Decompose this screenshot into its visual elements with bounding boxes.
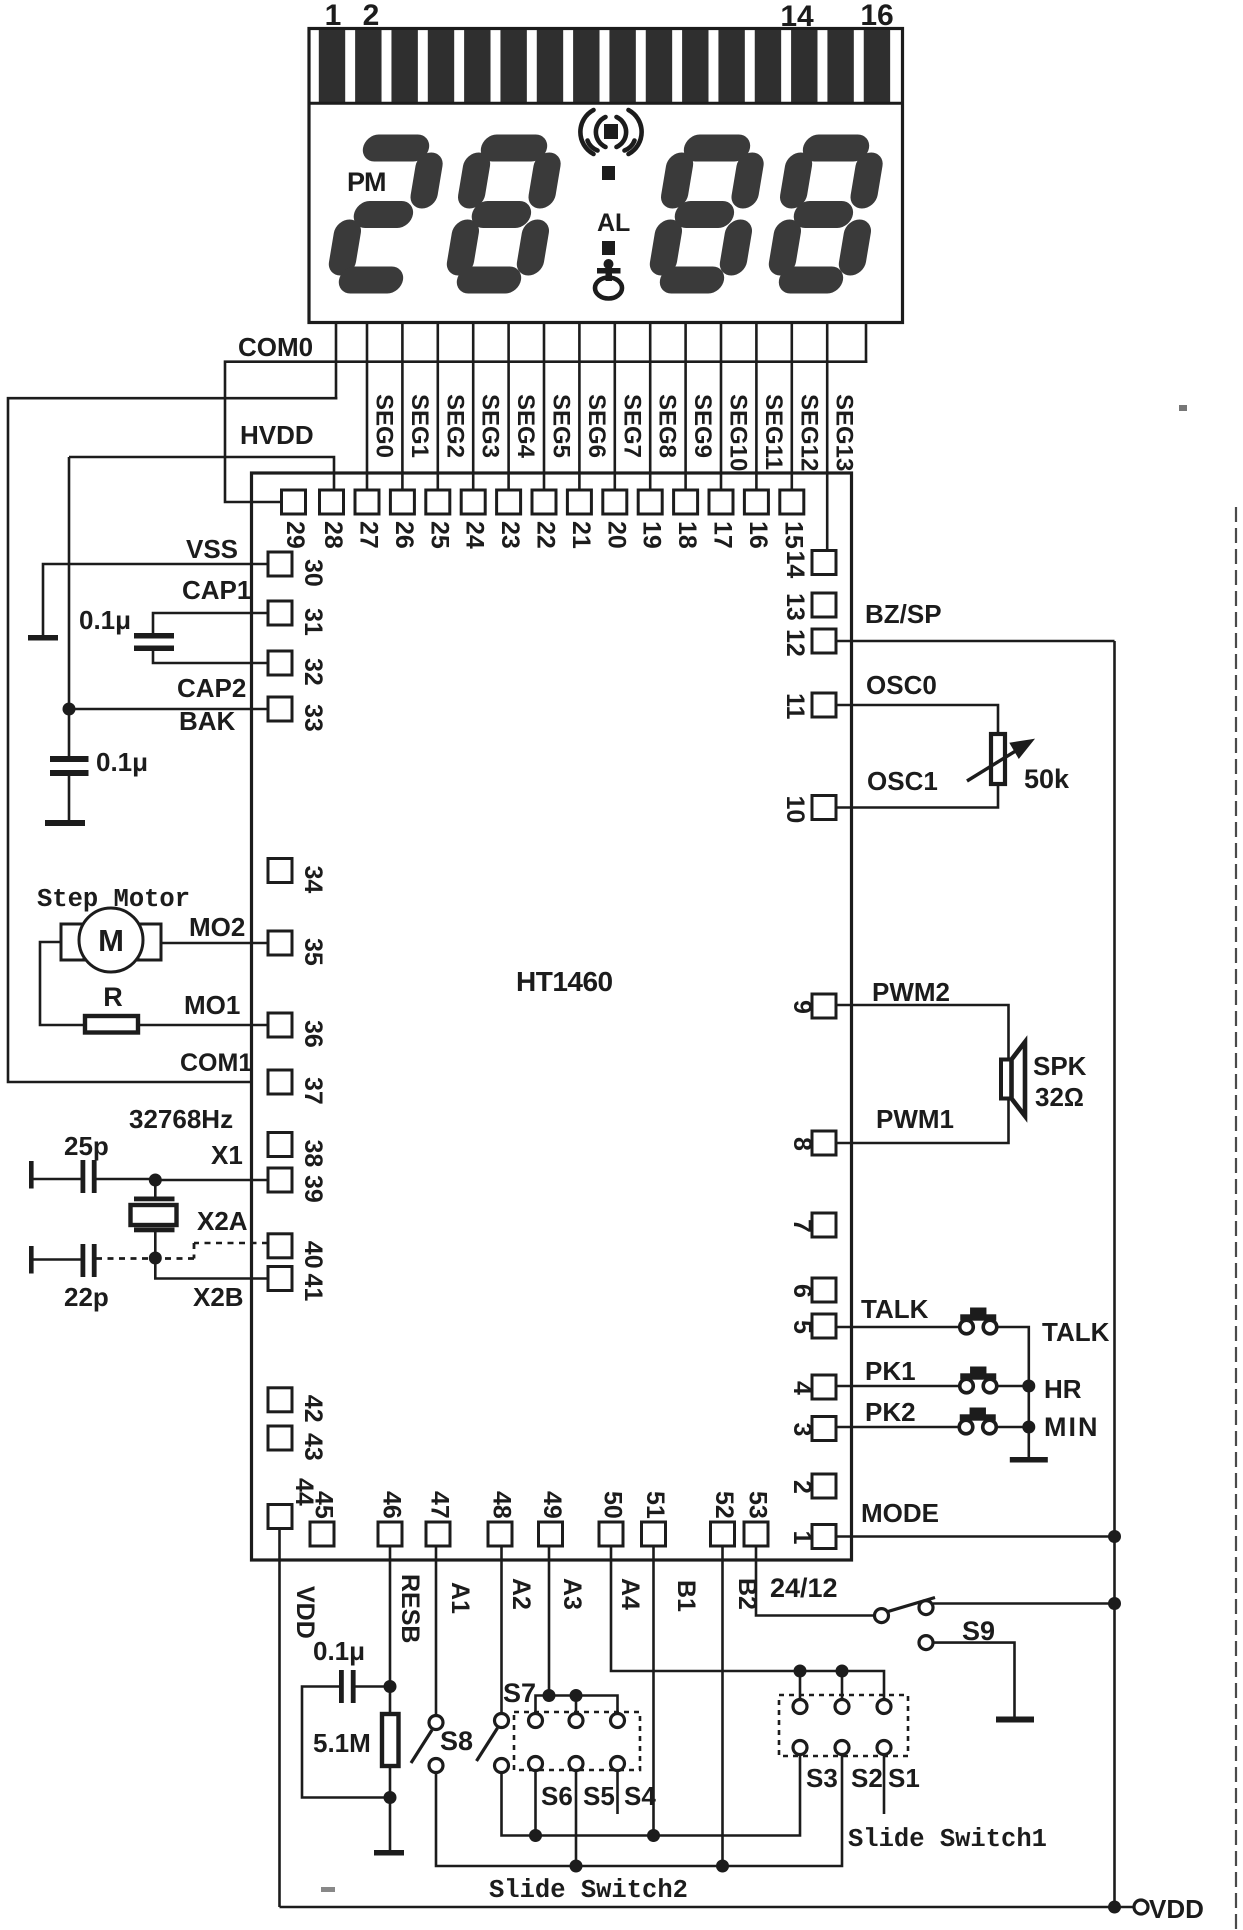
switch S7 bottom contact: [495, 1759, 509, 1773]
wire A4 pin50 to switch1 bus: [611, 1546, 884, 1700]
capacitor 22p plate left: [81, 1244, 86, 1277]
svg-text:0.1μ: 0.1μ: [313, 1636, 365, 1666]
LCD digit 2 (shows 8): [457, 148, 550, 280]
potentiometer 50k arrow: [967, 741, 1031, 781]
alarm-key indicator: [595, 259, 622, 299]
svg-text:32Ω: 32Ω: [1035, 1082, 1084, 1112]
svg-text:CAP2: CAP2: [177, 673, 246, 703]
svg-text:4: 4: [788, 1381, 816, 1395]
svg-text:45: 45: [310, 1491, 338, 1519]
switch S3 top contact: [793, 1700, 807, 1714]
svg-text:PWM1: PWM1: [876, 1104, 954, 1134]
colon dot lower: [602, 241, 615, 255]
ground VSS: [28, 635, 58, 641]
svg-text:23: 23: [496, 521, 524, 549]
svg-text:S3: S3: [806, 1763, 838, 1793]
svg-text:3: 3: [788, 1423, 816, 1437]
svg-text:40: 40: [299, 1241, 327, 1269]
switch S8 lever: [411, 1730, 432, 1763]
svg-text:X1: X1: [211, 1140, 243, 1170]
svg-text:PWM2: PWM2: [872, 977, 950, 1007]
svg-text:52: 52: [710, 1491, 738, 1519]
wire S8 to bottom bus: [436, 1773, 800, 1867]
switch S9 common contact: [919, 1601, 933, 1615]
svg-text:B1: B1: [672, 1580, 700, 1612]
potentiometer 50k body: [991, 734, 1005, 784]
LCD display module outline: [309, 29, 903, 323]
svg-text:CAP1: CAP1: [182, 575, 251, 605]
push button TALK: [960, 1308, 997, 1334]
svg-text:Slide Switch2: Slide Switch2: [489, 1876, 688, 1905]
svg-text:SEG6: SEG6: [583, 394, 610, 458]
switch S9 contact B: [919, 1636, 933, 1650]
svg-text:17: 17: [709, 521, 737, 549]
capacitor C2 0.1u plate bottom: [50, 770, 89, 776]
svg-text:25p: 25p: [64, 1131, 109, 1161]
wire A1 pin47 down: [435, 1546, 438, 1716]
svg-text:20: 20: [602, 521, 630, 549]
svg-text:RESB: RESB: [396, 1574, 424, 1643]
svg-text:PM: PM: [347, 167, 386, 197]
svg-text:39: 39: [299, 1175, 327, 1203]
wire B2 pin52 down: [721, 1546, 724, 1866]
svg-text:BZ/SP: BZ/SP: [865, 599, 942, 629]
svg-text:27: 27: [355, 521, 383, 549]
svg-text:SEG0: SEG0: [371, 394, 398, 458]
wire S5 bottom to low bus: [575, 1770, 578, 1866]
svg-text:10: 10: [781, 796, 809, 824]
svg-text:A4: A4: [616, 1578, 644, 1610]
slide switch2 outline dashed: [514, 1712, 640, 1770]
wire RESB node to ground: [389, 1766, 392, 1851]
wire button rail to ground: [1028, 1386, 1031, 1458]
svg-text:31: 31: [299, 608, 327, 636]
SEG0-SEG13 labels: [371, 394, 858, 471]
svg-text:33: 33: [299, 704, 327, 732]
svg-text:37: 37: [299, 1077, 327, 1105]
speaker SPK frame: [1001, 1060, 1012, 1099]
IC HT1460 body: [252, 473, 852, 1560]
svg-text:COM0: COM0: [238, 332, 313, 362]
svg-text:34: 34: [299, 866, 327, 894]
svg-text:X2A: X2A: [197, 1206, 248, 1236]
crystal Y1 top plate: [134, 1197, 175, 1202]
svg-text:36: 36: [299, 1020, 327, 1048]
junction X2B node: [149, 1252, 162, 1265]
svg-text:B2: B2: [733, 1578, 761, 1610]
svg-text:HR: HR: [1044, 1374, 1082, 1404]
svg-text:SPK: SPK: [1033, 1051, 1087, 1081]
svg-text:SEG1: SEG1: [406, 394, 433, 458]
ground buttons: [1010, 1457, 1048, 1463]
svg-text:5: 5: [788, 1320, 816, 1334]
switch S9 contact A: [875, 1609, 889, 1623]
wire right rail vertical: [1113, 641, 1116, 1907]
svg-text:MO1: MO1: [184, 990, 240, 1020]
svg-text:SEG10: SEG10: [725, 394, 752, 471]
wire crystal to X2B node: [154, 1232, 157, 1258]
svg-text:16: 16: [860, 0, 893, 32]
wire S9 contact B to ground: [933, 1643, 1015, 1717]
svg-text:HT1460: HT1460: [516, 966, 613, 997]
wire S4 bottom stub: [616, 1770, 619, 1814]
svg-text:5.1M: 5.1M: [313, 1728, 371, 1758]
wire MIN button to rail: [996, 1426, 1029, 1429]
wire BZ/SP pin12: [836, 640, 1115, 643]
wire PWM2 pin9: [836, 1005, 1009, 1059]
switch S2 bottom contact: [835, 1741, 849, 1755]
svg-text:21: 21: [567, 521, 595, 549]
svg-text:22: 22: [532, 521, 560, 549]
wire C3 right to RESB: [355, 1685, 390, 1688]
svg-text:2: 2: [363, 0, 380, 32]
crystal Y1 bottom plate: [134, 1228, 175, 1233]
svg-text:6: 6: [788, 1284, 816, 1298]
svg-text:0.1μ: 0.1μ: [79, 605, 131, 635]
capacitor C3 plate right: [351, 1670, 356, 1703]
svg-text:9: 9: [788, 1000, 816, 1014]
wire X2B pin41: [155, 1258, 268, 1279]
junction S3 top node: [794, 1665, 807, 1678]
VDD terminal circle: [1134, 1900, 1148, 1914]
page edge line: [1235, 507, 1237, 1930]
svg-text:29: 29: [281, 521, 309, 549]
svg-text:S7: S7: [503, 1678, 536, 1708]
svg-text:50k: 50k: [1024, 764, 1070, 794]
svg-text:VDD: VDD: [291, 1586, 319, 1639]
switch S7 top contact: [495, 1714, 509, 1728]
capacitor C3 plate left: [339, 1670, 344, 1703]
mid bus to S3: [758, 1754, 800, 1836]
svg-text:1: 1: [788, 1531, 816, 1545]
wire MO2 pin35: [161, 942, 268, 945]
IC bottom pins 45-53 (pads and numbers): [310, 1491, 772, 1546]
capacitor 22p plate right: [92, 1244, 97, 1277]
capacitor C1 0.1u plate top: [134, 633, 174, 639]
svg-text:S6: S6: [541, 1781, 573, 1811]
junction BAK node: [63, 703, 76, 716]
wire X1 pin39: [155, 1179, 268, 1182]
svg-text:SEG7: SEG7: [618, 394, 645, 458]
stripe band separator line: [310, 102, 901, 105]
wire C3 left loop: [302, 1687, 384, 1798]
step motor body M: [79, 908, 143, 972]
svg-text:43: 43: [299, 1433, 327, 1461]
svg-text:Slide Switch1: Slide Switch1: [848, 1825, 1047, 1854]
svg-text:PK2: PK2: [865, 1397, 916, 1427]
svg-text:HVDD: HVDD: [240, 420, 314, 450]
resistor 5.1M body: [382, 1714, 399, 1766]
svg-text:2: 2: [788, 1480, 816, 1494]
wire COM1 stub from LCD: [335, 321, 338, 400]
slide switch1 outline dashed: [779, 1695, 908, 1756]
wire 25p left lead: [31, 1178, 81, 1181]
crystal Y1 body: [131, 1205, 177, 1225]
wire PK1 pin4: [836, 1385, 959, 1388]
wire OSC1 pin10: [836, 784, 998, 808]
junction RESB-C3 node: [384, 1680, 397, 1693]
wire CAP1 cap to pin32: [153, 651, 268, 663]
svg-text:25: 25: [425, 521, 453, 549]
junction S2 top node: [836, 1665, 849, 1678]
wire S1 bottom stub: [883, 1754, 886, 1814]
svg-text:SEG9: SEG9: [689, 394, 716, 458]
LCD connector stripe band (16 electrode bars): [319, 30, 890, 103]
svg-text:SEG2: SEG2: [441, 394, 468, 458]
LCD digit 4 (shows 8): [779, 148, 872, 280]
HVDD wire: [69, 457, 334, 492]
step motor terminal right: [138, 924, 161, 960]
wire S7 to mid bus: [502, 1773, 759, 1836]
junction MIN node: [1022, 1421, 1035, 1434]
wire VDD pin44 down: [278, 1530, 281, 1907]
svg-text:11: 11: [781, 693, 809, 720]
svg-text:S4: S4: [624, 1781, 656, 1811]
switch S6 top contact: [529, 1714, 543, 1728]
svg-text:14: 14: [780, 0, 814, 33]
wire motor loop left: [40, 942, 85, 1025]
svg-text:AL: AL: [597, 209, 630, 237]
wire 25p to X1 node: [96, 1178, 155, 1181]
svg-text:A3: A3: [558, 1578, 586, 1610]
svg-text:TALK: TALK: [861, 1294, 929, 1324]
wire CAP1 pin31: [153, 613, 268, 633]
svg-text:26: 26: [390, 521, 418, 549]
wire S2 top stub: [841, 1671, 844, 1700]
svg-text:MO2: MO2: [189, 912, 245, 942]
SEG0-SEG13 wires LCD to IC: [367, 321, 827, 552]
wire BAK to backup cap: [68, 709, 71, 756]
svg-text:15: 15: [779, 521, 807, 549]
wire COM1 run to far left: [8, 398, 337, 1082]
wire X2A dashed bend: [193, 1243, 196, 1259]
ground BAK cap: [45, 820, 85, 826]
junction S5 top stub node: [570, 1689, 583, 1702]
junction S5 bus node: [570, 1860, 583, 1873]
slide switch2 top bus: [536, 1696, 618, 1715]
svg-text:28: 28: [319, 521, 347, 549]
push button MIN: [959, 1408, 996, 1434]
IC right pins 14-1 (pads and numbers): [781, 551, 836, 1549]
wire PWM1 pin8: [836, 1098, 1009, 1143]
capacitor 25p end bar: [29, 1161, 34, 1189]
svg-text:M: M: [98, 923, 124, 958]
svg-text:7: 7: [788, 1219, 816, 1233]
wire S5 top stub: [575, 1696, 578, 1715]
resistor R body: [85, 1016, 138, 1033]
svg-text:30: 30: [299, 559, 327, 587]
wire COM0 bus to pin 29: [225, 362, 867, 502]
switch S8 bottom contact: [429, 1759, 443, 1773]
svg-text:MODE: MODE: [861, 1498, 939, 1528]
scan speck upper right: [1179, 405, 1187, 411]
wire TALK pin5: [836, 1326, 959, 1329]
ground S9: [996, 1717, 1034, 1723]
wire S6 bottom to mid bus: [534, 1770, 537, 1836]
switch S9 lever: [888, 1598, 935, 1612]
wire BAK pin33: [69, 708, 268, 711]
wire A3 pin49 down: [548, 1546, 551, 1696]
wire B1 pin51 down: [652, 1546, 655, 1836]
capacitor C2 0.1u plate top: [50, 756, 89, 762]
colon dot upper: [602, 166, 615, 180]
wire X2A dashed to node: [161, 1257, 194, 1260]
svg-text:A1: A1: [446, 1582, 474, 1614]
svg-text:0.1μ: 0.1μ: [96, 747, 148, 777]
capacitor 25p plate right: [92, 1160, 97, 1193]
svg-text:S8: S8: [440, 1726, 473, 1756]
capacitor C1 0.1u plate bottom: [134, 646, 174, 652]
svg-text:VSS: VSS: [186, 534, 238, 564]
svg-text:X2B: X2B: [193, 1282, 244, 1312]
push button HR: [960, 1367, 997, 1393]
svg-text:47: 47: [426, 1491, 454, 1519]
junction S6 bus node: [529, 1829, 542, 1842]
wire HVDD-BAK vertical: [68, 457, 71, 709]
svg-text:SEG8: SEG8: [654, 394, 681, 458]
svg-text:19: 19: [638, 521, 666, 549]
wire A2 pin48 down: [500, 1546, 503, 1714]
svg-text:S5: S5: [583, 1781, 615, 1811]
junction B1 bus node: [647, 1829, 660, 1842]
svg-text:12: 12: [781, 629, 809, 657]
svg-text:41: 41: [299, 1274, 327, 1302]
junction B2 bus node: [716, 1860, 729, 1873]
wire MODE pin1: [836, 1535, 1115, 1538]
wire HR button to rail: [997, 1385, 1029, 1388]
switch S4 top contact: [611, 1714, 625, 1728]
switch S7 lever: [477, 1728, 498, 1761]
svg-text:49: 49: [538, 1491, 566, 1519]
wire X1 node to crystal: [154, 1180, 157, 1198]
svg-text:COM1: COM1: [180, 1049, 252, 1077]
LCD digit 3 (shows 8): [660, 148, 753, 280]
step motor terminal left: [61, 924, 84, 960]
svg-text:18: 18: [673, 521, 701, 549]
svg-text:PK1: PK1: [865, 1356, 916, 1386]
svg-text:22p: 22p: [64, 1282, 109, 1312]
junction A3 bus node: [543, 1689, 556, 1702]
svg-text:8: 8: [788, 1137, 816, 1151]
svg-text:S1: S1: [888, 1763, 920, 1793]
svg-text:14: 14: [781, 551, 809, 579]
wire PK2 pin3: [836, 1426, 959, 1429]
switch S1 top contact: [877, 1700, 891, 1714]
junction RESB-R node: [384, 1791, 397, 1804]
svg-text:13: 13: [781, 593, 809, 621]
wire 24/12 from pin53: [756, 1546, 874, 1616]
speaker SPK cone: [1012, 1042, 1026, 1116]
wire MO1 pin36: [138, 1024, 268, 1027]
svg-text:32: 32: [299, 658, 327, 686]
svg-text:SEG13: SEG13: [831, 394, 858, 471]
junction 24/12 rail node: [1108, 1597, 1121, 1610]
svg-text:BAK: BAK: [179, 706, 236, 736]
svg-text:24/12: 24/12: [770, 1573, 838, 1603]
LCD digit 1 (shows 2): [339, 148, 432, 280]
svg-text:MIN: MIN: [1044, 1412, 1100, 1442]
svg-text:OSC1: OSC1: [867, 766, 938, 796]
svg-text:16: 16: [744, 521, 772, 549]
capacitor 25p plate left: [81, 1160, 86, 1193]
bottom VDD bus: [280, 1906, 1142, 1909]
svg-text:53: 53: [744, 1491, 772, 1519]
switch S3 bottom contact: [793, 1741, 807, 1755]
svg-text:42: 42: [299, 1395, 327, 1423]
radio-wave antenna indicator: [580, 110, 641, 154]
svg-text:SEG5: SEG5: [548, 394, 575, 458]
ground RESB: [374, 1850, 404, 1856]
svg-text:32768Hz: 32768Hz: [129, 1104, 233, 1134]
svg-text:1: 1: [325, 0, 342, 32]
wire COM0 stub from LCD: [865, 321, 868, 363]
capacitor 22p end bar: [29, 1246, 34, 1274]
wire RESB pin46 down: [389, 1546, 392, 1714]
svg-text:SEG12: SEG12: [795, 394, 822, 471]
junction HR node: [1022, 1380, 1035, 1393]
svg-text:A2: A2: [507, 1578, 535, 1610]
switch S8 top contact: [429, 1716, 443, 1730]
wire 22p to X2B node dashed: [96, 1257, 149, 1260]
scan speck lower left: [321, 1887, 335, 1892]
junction X1 node: [149, 1174, 162, 1187]
switch S5 bottom contact: [569, 1757, 583, 1771]
svg-text:48: 48: [488, 1491, 516, 1519]
svg-text:TALK: TALK: [1042, 1317, 1110, 1347]
junction VDD rail node: [1108, 1901, 1121, 1914]
svg-text:R: R: [103, 982, 123, 1012]
svg-text:51: 51: [641, 1491, 669, 1519]
svg-text:S2: S2: [851, 1763, 883, 1793]
wire S9 common to rail: [933, 1602, 1115, 1605]
junction MODE node: [1108, 1530, 1121, 1543]
switch S4 bottom contact: [611, 1757, 625, 1771]
svg-text:SEG3: SEG3: [477, 394, 504, 458]
wire 22p left lead: [31, 1258, 81, 1261]
svg-text:35: 35: [299, 938, 327, 966]
switch S2 top contact: [835, 1700, 849, 1714]
svg-text:VDD: VDD: [1149, 1894, 1204, 1924]
svg-text:SEG11: SEG11: [760, 394, 787, 470]
svg-text:OSC0: OSC0: [866, 670, 937, 700]
wire S3 top stub: [799, 1671, 802, 1700]
wire VSS pin30: [43, 564, 268, 635]
switch S1 bottom contact: [877, 1741, 891, 1755]
svg-text:SEG4: SEG4: [512, 394, 539, 459]
wire TALK button to rail: [997, 1327, 1029, 1386]
svg-text:38: 38: [299, 1140, 327, 1168]
low bus to S2: [800, 1754, 842, 1866]
wire cap C2 to ground: [68, 776, 71, 820]
switch S5 top contact: [569, 1714, 583, 1728]
IC left pins 30-44 (pads and numbers): [268, 552, 327, 1529]
svg-text:50: 50: [599, 1491, 627, 1519]
wire OSC0 pin11: [836, 705, 998, 734]
svg-text:24: 24: [461, 521, 489, 549]
svg-text:46: 46: [378, 1491, 406, 1519]
switch S6 bottom contact: [529, 1757, 543, 1771]
IC top pins 29-15 (pads and numbers): [281, 490, 807, 549]
wire X2A dashed pin40: [194, 1242, 268, 1245]
